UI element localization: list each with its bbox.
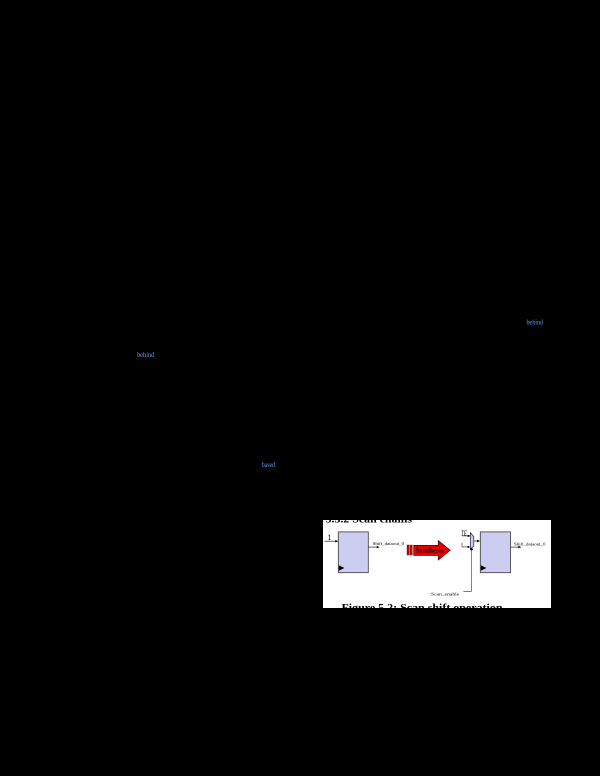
svg-text:5.3.2 Scan chains: 5.3.2 Scan chains (326, 520, 412, 526)
svg-text:Figure 5.2: Scan shift operati: Figure 5.2: Scan shift operation (342, 603, 503, 608)
svg-text:TE: TE (461, 530, 467, 538)
svg-text:based: based (262, 461, 276, 469)
hyperlink word 2 (blue) (135, 348, 159, 360)
flip-flop U1 (left, pre-synthesis) (338, 532, 368, 573)
clock triangle of U1 (339, 565, 345, 570)
svg-text:behind: behind (137, 351, 155, 359)
wire: left FF output (368, 546, 377, 548)
junction: mux select at bottom (470, 548, 473, 550)
hyperlink word 3 (blue) (259, 458, 281, 470)
hyperlink word 1 (blue) (524, 316, 548, 328)
svg-text:Synthesis: Synthesis (416, 547, 444, 555)
svg-text:Shift_dataout_0: Shift_dataout_0 (373, 541, 405, 546)
wire: functional data input stub into mux (462, 543, 469, 547)
mux M1 (470, 533, 474, 549)
svg-text:behind: behind (527, 319, 544, 327)
wire: scan enable vertical run + elbow (463, 550, 471, 592)
clock triangle of U2 (481, 565, 487, 570)
red break bar 2 (410, 545, 412, 555)
flip-flop U2 (right, scan) (480, 532, 510, 573)
figure: scan flip-flop synthesis schematic (323, 520, 551, 608)
red break bar 1 (407, 545, 409, 555)
red Synthesis arrow (414, 541, 451, 560)
svg-text:1: 1 (327, 533, 331, 542)
wire: input into left flip-flop (325, 540, 336, 542)
wire: TE into mux (462, 535, 470, 537)
svg-text:Shift_dataout_0: Shift_dataout_0 (514, 541, 546, 546)
svg-text:Scan_enable: Scan_enable (431, 592, 459, 597)
figure white background (323, 520, 551, 608)
wire: mux output into right FF (474, 540, 477, 542)
wire: right FF output (511, 546, 519, 548)
